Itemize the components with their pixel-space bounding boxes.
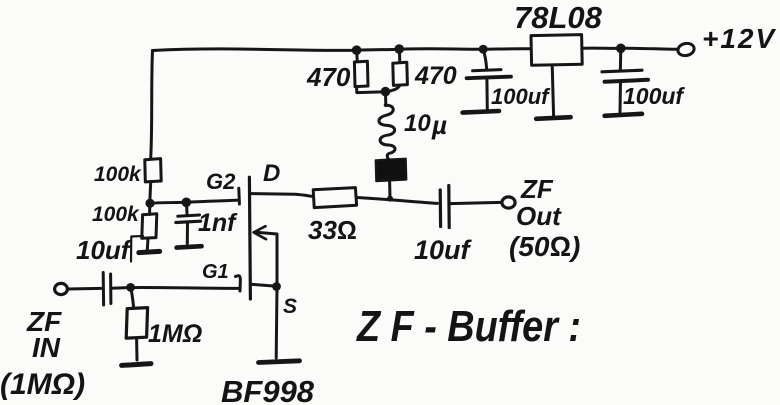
svg-text:G1: G1 <box>202 261 229 283</box>
svg-text:10uf: 10uf <box>76 235 132 265</box>
ground under 1M <box>122 364 151 366</box>
capacitor 100uf (right of regulator) <box>616 44 626 54</box>
ground under source <box>259 361 300 363</box>
wire input to coupling cap <box>68 287 102 291</box>
wire G1 node to gate 1 <box>131 286 239 290</box>
resistor 100k (lower, G2 divider) <box>148 204 151 215</box>
transistor BF998 substrate arrow <box>256 232 277 286</box>
svg-text:78L08: 78L08 <box>514 0 603 35</box>
regulator 78L08 <box>531 35 582 66</box>
svg-text:100k: 100k <box>92 203 140 226</box>
svg-text:470: 470 <box>306 62 351 92</box>
node divider junction <box>145 199 154 208</box>
resistor 100k (upper, G2 divider) <box>145 159 161 182</box>
resistor 470 (left) <box>355 50 358 61</box>
svg-text:µ: µ <box>431 110 447 140</box>
svg-text:+12V: +12V <box>702 23 776 54</box>
svg-text:S: S <box>283 295 297 318</box>
capacitor input coupling <box>102 273 105 306</box>
ground under 78L08 <box>536 117 570 119</box>
node 470 junction <box>381 87 391 97</box>
capacitor 1nf (G2 bypass) <box>185 203 189 214</box>
transistor BF998 channel <box>249 177 250 299</box>
node rail right 470 <box>394 44 404 54</box>
node G2 wire / 1nf junction <box>182 198 192 208</box>
capacitor 10uf (output coupling) <box>439 190 443 227</box>
terminal ZF Out <box>502 197 515 208</box>
wire G2 bias to gate 2 <box>150 200 237 203</box>
wire drain to 33R <box>250 194 313 197</box>
svg-text:IN: IN <box>32 332 61 363</box>
label 10uf with leader (bypass across lower 100k) <box>131 236 143 262</box>
svg-text:1MΩ: 1MΩ <box>148 320 202 348</box>
wire rail from regulator to +12V terminal <box>582 48 678 49</box>
svg-text:100uf: 100uf <box>491 84 551 109</box>
wire left vertical from rail down to 100k <box>151 51 153 159</box>
ground under lower 100k <box>139 251 160 252</box>
resistor 470 (right) <box>398 49 401 62</box>
svg-text:Out: Out <box>516 201 562 231</box>
svg-text:Z F - Buffer :: Z F - Buffer : <box>355 302 581 351</box>
node rail left 470 <box>352 45 362 55</box>
resistor 33R (drain) <box>313 188 356 208</box>
svg-text:1nf: 1nf <box>198 209 238 237</box>
wire 100k to divider node <box>148 182 152 203</box>
transistor BF998 gate-2 bar <box>237 188 241 204</box>
svg-text:100k: 100k <box>94 163 142 186</box>
transistor BF998 gate-1 bar <box>236 276 241 291</box>
svg-text:ZF: ZF <box>520 174 554 204</box>
node G1 input junction <box>126 283 135 292</box>
ferrite bead (black) <box>388 181 391 199</box>
wire source to ground <box>275 287 279 359</box>
svg-text:10uf: 10uf <box>414 235 473 265</box>
svg-text:100uf: 100uf <box>623 83 685 109</box>
terminal ZF IN <box>55 283 68 294</box>
inductor 10u coil <box>379 105 395 159</box>
node source junction <box>272 282 281 291</box>
svg-text:(50Ω): (50Ω) <box>509 231 580 262</box>
svg-text:33Ω: 33Ω <box>308 215 357 245</box>
wire +12V rail (top horizontal) <box>153 49 531 51</box>
terminal +12V <box>677 42 696 57</box>
wire cap to G1 node <box>111 286 130 290</box>
capacitor 100uf (left of regulator) <box>479 45 488 54</box>
wire 470s junction to coil <box>384 92 387 106</box>
ground under left 100uf <box>463 111 499 113</box>
wire source lead <box>251 284 277 286</box>
svg-text:D: D <box>263 160 280 187</box>
ground under right 100uf <box>605 114 642 116</box>
wire 33R to output cap <box>357 198 438 204</box>
svg-text:BF998: BF998 <box>221 374 315 405</box>
svg-text:(1MΩ): (1MΩ) <box>0 368 85 401</box>
svg-text:470: 470 <box>414 62 457 90</box>
svg-text:G2: G2 <box>206 169 236 194</box>
svg-text:10: 10 <box>404 110 431 137</box>
ground under 1nf <box>177 246 202 247</box>
resistor 1M (input) <box>131 288 134 308</box>
node bead/output junction <box>387 196 393 202</box>
